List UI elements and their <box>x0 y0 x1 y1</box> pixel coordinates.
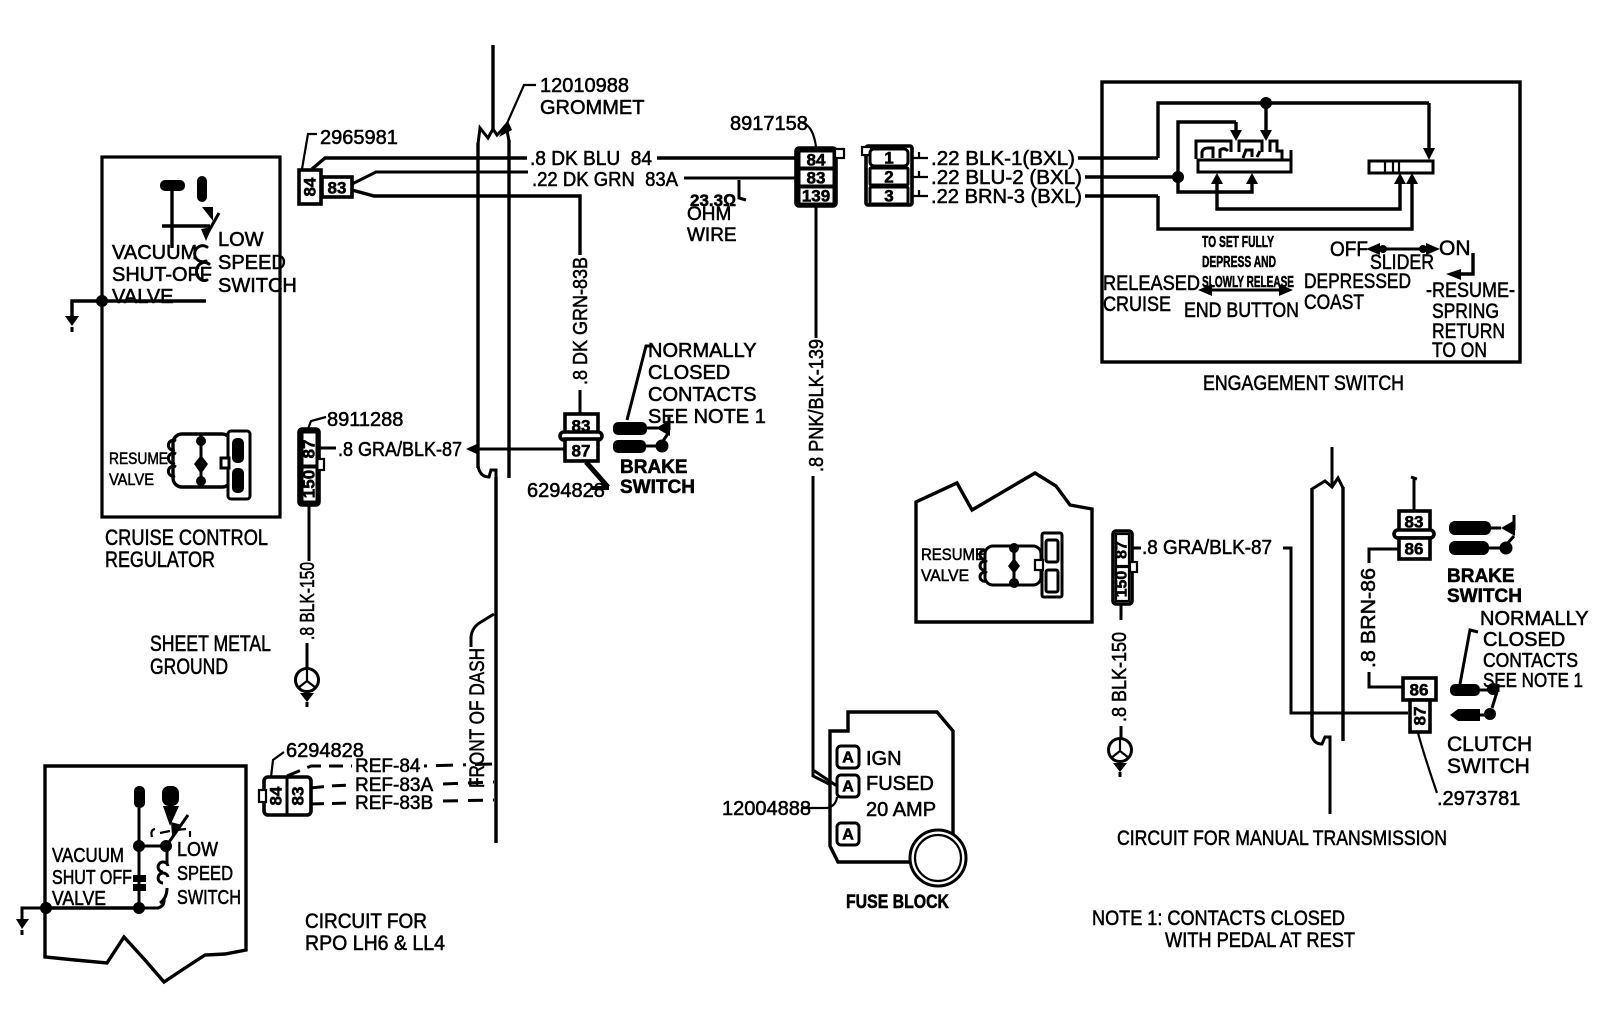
svg-text:SWITCH: SWITCH <box>1447 755 1530 778</box>
resume valve body <box>173 434 231 487</box>
svg-text:REF-84: REF-84 <box>355 756 421 777</box>
wire top rail drop to slider <box>1423 103 1435 160</box>
svg-text:SWITCH: SWITCH <box>177 887 241 909</box>
svg-text:2965981: 2965981 <box>320 127 398 149</box>
label BRAKE SWITCH right <box>1447 566 1522 607</box>
connector 8917158 body <box>796 148 844 206</box>
node wire 2 <box>1172 171 1184 183</box>
low speed switch arrow contact <box>202 207 213 221</box>
svg-text:SHEET METAL: SHEET METAL <box>150 631 271 656</box>
label NOTE 1 <box>1092 907 1355 952</box>
svg-text:TO SET FULLY: TO SET FULLY <box>1202 234 1274 251</box>
RPO circuit box <box>45 766 246 982</box>
svg-text:A: A <box>842 779 854 796</box>
front of dash line lower <box>494 477 497 843</box>
label LOW SPEED SWITCH 2 <box>177 839 241 909</box>
wire .8 BLK-150 <box>297 505 319 669</box>
brake switch connector cavity 87 <box>565 439 598 461</box>
ground symbol RPO <box>16 919 29 935</box>
svg-text:.8 PNK/BLK-139: .8 PNK/BLK-139 <box>806 339 828 472</box>
ground symbol left of regulator <box>65 316 79 332</box>
svg-text:FUSED: FUSED <box>866 773 934 795</box>
low speed switch 2 blade <box>167 815 188 845</box>
node junction on regulator edge <box>96 295 108 307</box>
wire 2 to engagement switch <box>1085 175 1178 178</box>
wire circuit 2 loop <box>1178 122 1242 177</box>
low speed switch blade <box>201 213 219 241</box>
svg-text:LOW: LOW <box>218 229 264 251</box>
label VACUUM SHUT OFF VALVE 2 <box>52 845 132 910</box>
label LOW SPEED SWITCH <box>218 229 297 297</box>
leader to connector 2965981 <box>302 134 317 169</box>
svg-text:SHUT OFF: SHUT OFF <box>52 867 132 889</box>
label CRUISE CONTROL REGULATOR <box>105 525 268 572</box>
wire 2 lower branch to end button <box>1178 173 1258 192</box>
svg-text:.22 DK GRN 83A: .22 DK GRN 83A <box>532 169 679 191</box>
svg-text:SWITCH: SWITCH <box>620 477 695 498</box>
vacuum valve 2 plunger <box>134 786 145 846</box>
svg-text:1: 1 <box>884 149 893 168</box>
resume valve terminal bottom <box>232 468 244 493</box>
svg-text:CIRCUIT FOR: CIRCUIT FOR <box>305 910 427 933</box>
wire circuit 1 riser <box>1158 103 1429 158</box>
svg-text:SLIDER: SLIDER <box>1370 251 1434 274</box>
svg-text:8917158: 8917158 <box>730 113 808 135</box>
brake switch connector cavity 83 <box>565 414 598 436</box>
connector 123 cavity 2 <box>870 168 908 187</box>
svg-text:SHUT-OFF: SHUT-OFF <box>112 264 212 286</box>
brake switch 2 contact lower <box>1449 536 1514 555</box>
svg-text:COAST: COAST <box>1304 291 1364 314</box>
leader ohm wire <box>739 180 746 200</box>
wire circuit 3 to slider <box>1158 173 1418 229</box>
svg-text:NOTE 1: CONTACTS CLOSED: NOTE 1: CONTACTS CLOSED <box>1092 907 1345 930</box>
wire switch to bottom <box>139 898 164 908</box>
svg-text:84: 84 <box>267 786 286 805</box>
cruise control regulator box <box>102 157 280 517</box>
label CIRCUIT FOR RPO LH6 and LL4 <box>305 910 445 955</box>
label RESUME SPRING RETURN TO ON <box>1426 279 1515 362</box>
connector 150 87 second cavity 150 <box>1114 567 1131 601</box>
svg-text:87: 87 <box>1114 541 1131 559</box>
wire .8 DK GRN-83B lower <box>579 390 582 414</box>
leader 6294828 second <box>271 752 284 777</box>
wire 1 to engagement switch <box>1078 156 1158 159</box>
svg-text:END BUTTON: END BUTTON <box>1184 299 1299 322</box>
svg-text:12004888: 12004888 <box>722 798 811 820</box>
brake switch connector divider <box>560 432 602 440</box>
label RELEASED CRUISE <box>1103 272 1200 316</box>
fuse block outline <box>830 712 953 862</box>
node vacuum valve top <box>133 840 145 852</box>
svg-text:20 AMP: 20 AMP <box>866 799 936 821</box>
connector 8917158 cavity 139 <box>799 187 834 206</box>
fuse terminal A top <box>837 746 859 768</box>
svg-text:RELEASED: RELEASED <box>1103 272 1200 295</box>
leader 6294828 <box>586 462 609 488</box>
resume valve 2 node top <box>1009 543 1019 553</box>
svg-text:83: 83 <box>328 179 347 198</box>
svg-text:REF-83B: REF-83B <box>355 793 433 814</box>
svg-text:VACUUM: VACUUM <box>52 845 124 867</box>
label BRAKE SWITCH center <box>620 457 695 498</box>
wire .22 DK GRN 83A <box>352 169 797 191</box>
engagement switch box <box>1102 82 1520 362</box>
bottom wire in RPO box <box>45 906 139 909</box>
fuse terminal A bottom <box>837 823 859 845</box>
low speed switch 2 contact pill <box>162 786 179 806</box>
resume valve check diamond <box>194 455 208 474</box>
brake connector 2 cavity 86 <box>1399 538 1430 559</box>
pointer from label to dash line <box>471 614 494 647</box>
pin 3 tick <box>912 190 928 196</box>
svg-text:6294828: 6294828 <box>286 740 364 762</box>
resume valve 2 terminal bottom <box>1046 570 1058 592</box>
svg-text:SWITCH: SWITCH <box>218 275 297 297</box>
wire .8 DK BLU 84 <box>312 148 797 170</box>
low speed switch contact pill <box>197 176 207 202</box>
dash panel break notch <box>478 466 496 478</box>
wire 139 into fuse terminal <box>813 770 837 786</box>
svg-text:NORMALLY: NORMALLY <box>648 340 757 362</box>
svg-text:FRONT OF DASH: FRONT OF DASH <box>466 648 489 788</box>
label NORMALLY CLOSED CONTACTS SEE NOTE 1 <box>648 340 766 428</box>
ground symbol second <box>1109 739 1132 778</box>
svg-text:SWITCH: SWITCH <box>1447 586 1522 607</box>
connector 150 87 second cavity 87 <box>1114 534 1131 566</box>
resume valve 2 node bottom <box>1009 578 1019 588</box>
leader to grommet <box>499 85 536 137</box>
svg-text:A: A <box>842 750 854 767</box>
svg-text:LOW: LOW <box>177 839 218 861</box>
svg-text:CONTACTS: CONTACTS <box>648 384 757 406</box>
connector 8911288 body <box>299 429 324 505</box>
end button castellated contour <box>1196 141 1282 159</box>
svg-text:FUSE BLOCK: FUSE BLOCK <box>846 892 949 913</box>
node vacuum valve bottom <box>133 902 145 914</box>
wire end button to slider <box>1211 173 1406 209</box>
label CLUTCH SWITCH <box>1447 733 1532 778</box>
leader normally closed contacts <box>627 346 653 420</box>
wire 3 to engagement switch <box>1085 194 1158 197</box>
wire .8 PNK/BLK-139 <box>806 205 837 788</box>
resume valve connector housing <box>221 431 250 499</box>
clutch switch contact upper <box>1450 683 1499 708</box>
brake switch contact upper <box>613 417 670 436</box>
svg-text:CLUTCH: CLUTCH <box>1447 733 1532 756</box>
connector 8911288 cavity 150 <box>300 467 319 502</box>
wire stub above grommet <box>491 45 494 130</box>
connector 8911288 cavity 87 <box>300 432 319 466</box>
resume valve 2 box <box>916 473 1092 622</box>
svg-text:WITH PEDAL AT REST: WITH PEDAL AT REST <box>1165 929 1355 952</box>
fuse block horn circle <box>910 830 966 886</box>
wire to chassis ground <box>72 301 102 316</box>
low speed switch 2 spring <box>158 846 168 903</box>
wire drop from node to end button <box>1260 103 1272 141</box>
label SHEET METAL GROUND <box>150 631 271 679</box>
svg-text:RPO LH6 & LL4: RPO LH6 & LL4 <box>305 932 445 955</box>
svg-text:SPEED: SPEED <box>177 863 233 885</box>
connector 2965981 cavity 83 <box>322 177 352 198</box>
leader 12004888 <box>801 797 837 808</box>
wire .8 BLK-150 second <box>1109 604 1131 739</box>
svg-text:VACUUM: VACUUM <box>112 242 197 264</box>
dash panel line left <box>476 143 479 468</box>
svg-text:OHM: OHM <box>687 204 731 225</box>
svg-text:.8 BLK-150: .8 BLK-150 <box>1109 632 1131 722</box>
brake switch 2 contact upper <box>1449 515 1515 536</box>
grommet <box>478 125 509 144</box>
resume valve 2 coil hooks <box>980 550 987 581</box>
svg-text:83: 83 <box>807 169 826 188</box>
svg-text:84: 84 <box>807 151 826 170</box>
svg-text:87: 87 <box>572 442 591 461</box>
resume spring return arrow <box>1446 253 1473 280</box>
dashed REF-83A <box>310 775 494 796</box>
label RESUME VALVE 2 <box>921 545 985 585</box>
svg-text:TO ON: TO ON <box>1432 339 1487 362</box>
dash panel segment right <box>1312 447 1343 814</box>
svg-text:CONTACTS: CONTACTS <box>1483 650 1578 672</box>
connector 2965981 cavity 84 <box>299 170 321 204</box>
resume valve coil hooks <box>168 440 176 476</box>
svg-text:VALVE: VALVE <box>52 888 106 910</box>
svg-text:150: 150 <box>300 470 319 498</box>
wire stub above brake connector 2 <box>1411 477 1417 511</box>
resume valve terminal top <box>232 438 244 463</box>
connector 150 87 second body <box>1113 531 1137 604</box>
leader normally closed right <box>1460 630 1478 684</box>
resume valve node bottom <box>196 476 206 486</box>
dash panel line right <box>507 140 510 478</box>
pin 1 tick <box>912 152 928 158</box>
connector 123 cavity 3 <box>870 187 908 206</box>
fuse terminal A middle <box>837 775 859 797</box>
svg-text:83: 83 <box>289 787 308 806</box>
label OFF ON slider <box>1330 237 1471 261</box>
svg-text:ON: ON <box>1439 237 1471 260</box>
sheet metal ground symbol <box>296 669 319 708</box>
connector 6294828 body <box>259 777 311 815</box>
wire .8 DK GRN-83B horizontal <box>352 190 580 255</box>
svg-text:6294828: 6294828 <box>527 480 605 502</box>
label DEPRESSED COAST <box>1304 270 1411 314</box>
low speed switch 2 contact arrow <box>163 806 179 826</box>
resume valve node top <box>196 436 206 446</box>
wire to ground RPO <box>22 908 46 919</box>
connector 6294828 cavity 84 <box>267 777 288 815</box>
label 12010988 GROMMET <box>540 75 644 119</box>
svg-text:.8 GRA/BLK-87: .8 GRA/BLK-87 <box>338 439 462 461</box>
svg-text:SEE NOTE 1: SEE NOTE 1 <box>648 406 766 428</box>
leader 2973781 <box>1418 733 1437 793</box>
svg-text:87: 87 <box>300 440 319 459</box>
connector 8917158 cavity 83 <box>799 169 834 188</box>
svg-text:87: 87 <box>1411 707 1430 726</box>
brake connector 2 divider <box>1394 530 1434 538</box>
connector 123 cavity 1 <box>870 149 908 168</box>
resume valve 2 body <box>985 546 1041 585</box>
label VACUUM SHUT-OFF VALVE <box>112 242 212 308</box>
svg-text:REGULATOR: REGULATOR <box>105 547 215 572</box>
connector 8917158 cavity 84 <box>799 151 834 170</box>
svg-text:RESUME: RESUME <box>109 449 168 468</box>
svg-text:GROMMET: GROMMET <box>540 97 644 119</box>
vacuum valve 2 seal bars <box>133 846 146 908</box>
svg-text:VALVE: VALVE <box>109 470 154 489</box>
svg-text:DEPRESS AND: DEPRESS AND <box>1202 254 1276 271</box>
label TO SET FULLY DEPRESS AND SLOWLY RELEASE <box>1202 234 1294 291</box>
svg-text:.8 DK GRN-83B: .8 DK GRN-83B <box>570 257 592 385</box>
svg-text:.8 BRN-86: .8 BRN-86 <box>1358 568 1380 668</box>
svg-text:.8 GRA/BLK-87: .8 GRA/BLK-87 <box>1142 537 1272 559</box>
low speed switch 2 travel dashes <box>151 829 190 837</box>
svg-text:ENGAGEMENT SWITCH: ENGAGEMENT SWITCH <box>1203 372 1404 395</box>
svg-text:CLOSED: CLOSED <box>1483 629 1565 651</box>
svg-text:150: 150 <box>1114 571 1131 598</box>
end button travel arrow <box>1198 284 1293 296</box>
svg-text:139: 139 <box>802 187 830 206</box>
low speed switch spring curls <box>195 246 209 281</box>
resume valve 2 diamond <box>1008 558 1020 574</box>
wire from regulator left edge to switch <box>102 299 206 302</box>
clutch connector cavity 87 <box>1410 700 1430 732</box>
dashed REF-84 <box>287 756 494 777</box>
svg-text:.8 DK BLU 84: .8 DK BLU 84 <box>530 148 652 170</box>
leader 8917158 <box>800 122 816 147</box>
svg-text:NORMALLY: NORMALLY <box>1480 608 1589 630</box>
wire .8 GRA/BLK-87 second <box>1132 537 1408 713</box>
svg-text:86: 86 <box>1405 540 1424 559</box>
label 23.3 ohm wire <box>687 191 737 246</box>
svg-text:3: 3 <box>884 187 893 206</box>
svg-text:.8 BLK-150: .8 BLK-150 <box>297 562 319 640</box>
end button bar <box>1198 150 1291 172</box>
vacuum shut-off valve plunger <box>160 180 210 248</box>
node low speed switch 2 <box>160 840 172 852</box>
svg-text:RESUME: RESUME <box>921 545 985 564</box>
svg-text:CRUISE: CRUISE <box>1103 293 1171 316</box>
brake switch contact lower <box>613 432 669 453</box>
svg-text:-RESUME-: -RESUME- <box>1426 279 1515 302</box>
svg-text:VALVE: VALVE <box>921 566 969 585</box>
label RESUME VALVE <box>109 449 168 489</box>
slider bar <box>1369 161 1433 173</box>
wire valve to switch <box>139 845 166 848</box>
svg-text:A: A <box>842 827 854 844</box>
svg-text:BRAKE: BRAKE <box>620 457 688 478</box>
svg-text:.2973781: .2973781 <box>1437 788 1520 810</box>
connector 123 body <box>862 146 912 205</box>
svg-text:CLOSED: CLOSED <box>648 362 730 384</box>
pin 2 tick <box>912 171 928 177</box>
svg-text:CIRCUIT FOR MANUAL TRANSMISSIO: CIRCUIT FOR MANUAL TRANSMISSION <box>1117 827 1447 850</box>
svg-text:WIRE: WIRE <box>687 225 737 246</box>
svg-text:OFF: OFF <box>1330 238 1368 261</box>
wire .8 BRN-86 <box>1358 549 1403 687</box>
svg-text:12010988: 12010988 <box>540 75 629 97</box>
svg-text:86: 86 <box>1410 681 1429 700</box>
label NORMALLY CLOSED CONTACTS SEE NOTE 1 right <box>1480 608 1589 692</box>
svg-text:IGN: IGN <box>866 748 902 770</box>
svg-text:84: 84 <box>301 177 320 196</box>
leader 8911288 <box>308 417 326 429</box>
svg-text:2: 2 <box>884 168 893 187</box>
wire .8 GRA/BLK-87 <box>319 439 565 461</box>
node on top rail <box>1260 97 1272 109</box>
svg-text:8911288: 8911288 <box>327 409 403 431</box>
svg-text:.22 BRN-3 (BXL): .22 BRN-3 (BXL) <box>931 186 1082 208</box>
svg-text:VALVE: VALVE <box>112 286 174 308</box>
label IGN FUSED 20 AMP <box>866 748 936 821</box>
brake connector 2 cavity 83 <box>1399 511 1430 532</box>
resume valve 2 terminal top <box>1046 540 1058 562</box>
node on RPO box edge <box>40 902 52 914</box>
svg-text:BRAKE: BRAKE <box>1447 566 1515 587</box>
svg-text:GROUND: GROUND <box>150 654 228 679</box>
dashed REF-83B <box>310 793 494 814</box>
clutch switch contact lower <box>1450 708 1496 721</box>
clutch connector cavity 86 <box>1403 678 1436 700</box>
svg-text:SPEED: SPEED <box>218 252 286 274</box>
resume valve 2 connector housing <box>1035 533 1062 597</box>
